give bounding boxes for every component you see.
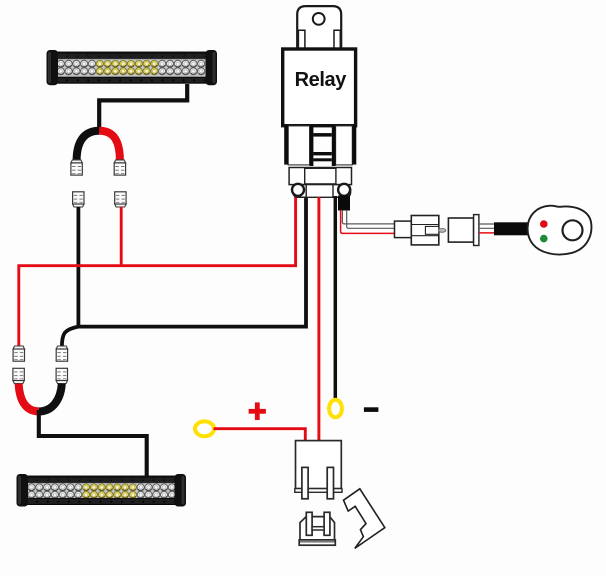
connector P6: rear flange (474, 215, 479, 246)
fuse F1: right blade (324, 512, 330, 535)
fuse F1: body (300, 517, 335, 540)
wire: sheathed cable into switch (494, 222, 529, 235)
wire: LB1 pigtail arch black half (77, 131, 100, 161)
connector P5: male housing body (411, 216, 439, 245)
LED light bar LB2 (bottom) (17, 474, 187, 507)
fuse holder FH1: left blade slot (302, 467, 308, 498)
wire: black branch from junction down to LB2 connector P3b (62, 327, 79, 347)
connector P6: female housing (448, 218, 473, 242)
fuse F1: base inner line (299, 541, 335, 543)
relay socket: left black bar (284, 126, 288, 165)
relay: heat-shrink boot on switch leads (338, 196, 350, 211)
wire: LB2 pigtail arch black half (39, 384, 62, 412)
symbol: lightning bolt (power surge) (344, 489, 385, 549)
wire: LB1 pigtail arch red half (99, 131, 120, 161)
relay U1: mounting tab (297, 6, 341, 50)
wire: harness black from P2a down, right along y=325 and up to relay pin 87 (78, 197, 306, 327)
relay terminal ring right (338, 184, 350, 196)
wire: harness red from P2b down to red bus (120, 207, 123, 266)
connector P3a: LB2 red socket (upper) (13, 346, 24, 361)
fuse F1: left blade (306, 512, 312, 535)
LED light bar LB1 (top) (47, 50, 218, 85)
wire: short leads behind P6 (479, 223, 496, 225)
relay socket: right black bar (352, 126, 356, 165)
connector P5: male housing small step (395, 221, 412, 238)
relay terminal ring left (292, 184, 304, 196)
wire: relay red lead to fuse holder (317, 197, 320, 442)
connector P3b: LB2 black socket (upper) (56, 346, 67, 361)
connector P4a: LB2 red plug (lower) (13, 368, 24, 383)
fuse F1: element bar (312, 527, 324, 530)
wire: LB1 black lead from bar to pigtail arch (99, 84, 187, 132)
relay terminal row shell (293, 185, 351, 198)
wire: red from positive ring to fuse holder (214, 429, 306, 442)
relay U1: body (283, 49, 356, 126)
wire: LB2 pigtail arch red half (19, 384, 39, 412)
connector P5: male pin (439, 229, 446, 233)
ring terminal: battery negative (yellow) (329, 400, 342, 418)
wire: switch lead outline upper (342, 210, 394, 224)
fuse holder FH1: box (296, 441, 342, 489)
relay U1: tab right notch (334, 30, 340, 50)
switch S1: green indicator (540, 235, 548, 243)
wire: red bus from relay pin 30 along y=262 and down to LB2 connector P3a (19, 197, 296, 347)
wire: LB2 black lead from arch to bar (39, 410, 147, 476)
relay terminal row middle block (306, 185, 333, 198)
switch S1: button (563, 220, 583, 240)
ring terminal: battery positive (yellow) (195, 421, 214, 436)
connector P2b: harness red socket (lower) (115, 192, 126, 207)
connector P1b: LB1 red plug (upper) (114, 160, 125, 175)
relay socket: ladder left rail (310, 126, 314, 166)
connector P5: inner line lower (411, 235, 439, 237)
wire: switch lead outline lower (347, 210, 395, 228)
fuse holder FH1: bottom band (295, 489, 342, 493)
switch S1: body (528, 206, 592, 255)
relay socket: left wing panel (288, 126, 309, 165)
wire: switch lead red core (341, 210, 395, 233)
fuse F1: base (299, 540, 335, 545)
connector P1a: LB1 black plug (upper) (71, 160, 82, 175)
label: plus sign (249, 402, 266, 420)
connector P5: terminal pocket (425, 226, 438, 234)
fuse holder FH1: right blade slot (327, 467, 333, 498)
svg-text:Relay: Relay (295, 69, 348, 91)
wire: thick black ground lead to battery negative (334, 196, 338, 400)
relay socket: ladder right rail (332, 126, 336, 166)
relay socket: ladder rung 3 (313, 158, 331, 161)
label: minus sign (364, 407, 379, 412)
connector P4b: LB2 black plug (lower) (56, 368, 67, 383)
relay socket lower shell inner box (305, 168, 336, 184)
connector P2a: harness black socket (lower) (73, 192, 84, 207)
relay socket: right wing panel (336, 126, 353, 165)
switch S1: red indicator (540, 220, 548, 228)
relay U1: tab left notch (298, 30, 305, 50)
relay U1: tab hole (313, 13, 325, 25)
connector P5: inner line upper (411, 224, 439, 226)
relay socket lower shell (289, 168, 351, 185)
relay socket: ladder rung 1 (313, 133, 331, 137)
relay socket: ladder rung 2 (313, 152, 331, 155)
